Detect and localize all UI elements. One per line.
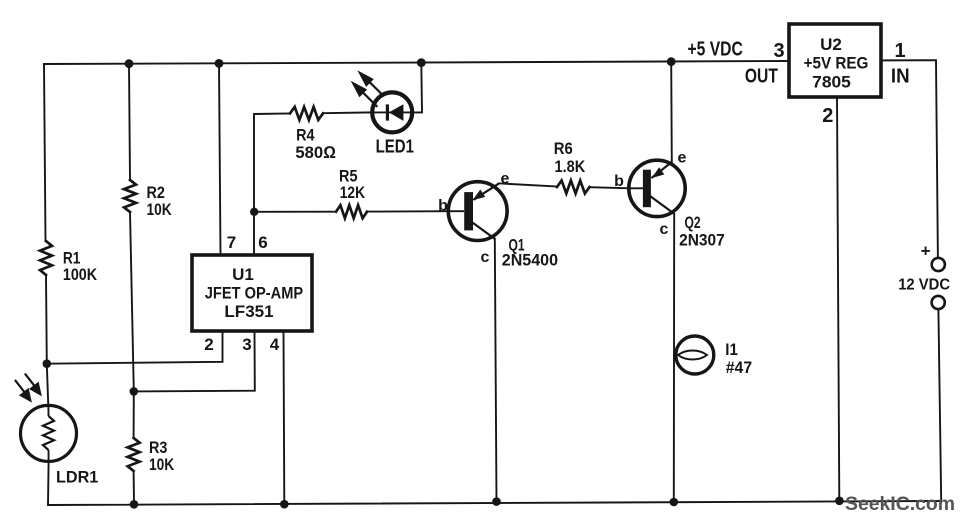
svg-text:LED1: LED1 (376, 136, 414, 156)
svg-text:2: 2 (204, 335, 213, 354)
svg-text:2: 2 (822, 105, 833, 127)
svg-text:+5 VDC: +5 VDC (688, 39, 743, 61)
svg-text:3: 3 (773, 40, 784, 62)
svg-text:10K: 10K (149, 455, 175, 474)
svg-text:e: e (678, 150, 687, 167)
svg-text:LDR1: LDR1 (56, 468, 98, 487)
svg-text:b: b (438, 198, 448, 215)
svg-text:LF351: LF351 (224, 302, 273, 321)
svg-text:R6: R6 (554, 139, 573, 158)
svg-text:12 VDC: 12 VDC (898, 277, 950, 294)
svg-text:+: + (921, 242, 931, 261)
svg-text:4: 4 (270, 335, 280, 354)
svg-text:6: 6 (258, 233, 267, 252)
svg-text:c: c (481, 249, 490, 266)
svg-text:7: 7 (227, 233, 236, 252)
svg-text:100K: 100K (63, 265, 98, 284)
svg-text:2N307: 2N307 (679, 230, 725, 249)
svg-text:2N5400: 2N5400 (502, 250, 558, 269)
svg-text:I1: I1 (725, 340, 738, 359)
svg-text:OUT: OUT (745, 66, 778, 88)
svg-text:+5V REG: +5V REG (804, 54, 869, 73)
svg-text:c: c (660, 221, 669, 238)
svg-text:7805: 7805 (812, 72, 851, 91)
svg-text:U1: U1 (232, 265, 254, 284)
svg-text:3: 3 (242, 335, 251, 354)
svg-text:Q2: Q2 (685, 213, 701, 232)
svg-text:R4: R4 (296, 126, 315, 145)
svg-text:e: e (501, 171, 510, 188)
svg-text:580Ω: 580Ω (295, 143, 336, 162)
svg-text:U2: U2 (820, 35, 842, 54)
svg-text:10K: 10K (147, 200, 173, 219)
svg-text:#47: #47 (726, 358, 752, 377)
svg-text:12K: 12K (340, 183, 366, 202)
svg-text:SeekIC.com: SeekIC.com (845, 493, 955, 515)
svg-text:1.8K: 1.8K (555, 157, 586, 176)
svg-text:1: 1 (894, 40, 905, 62)
svg-text:IN: IN (891, 65, 910, 87)
svg-text:JFET OP-AMP: JFET OP-AMP (205, 284, 303, 303)
svg-text:b: b (614, 173, 624, 190)
